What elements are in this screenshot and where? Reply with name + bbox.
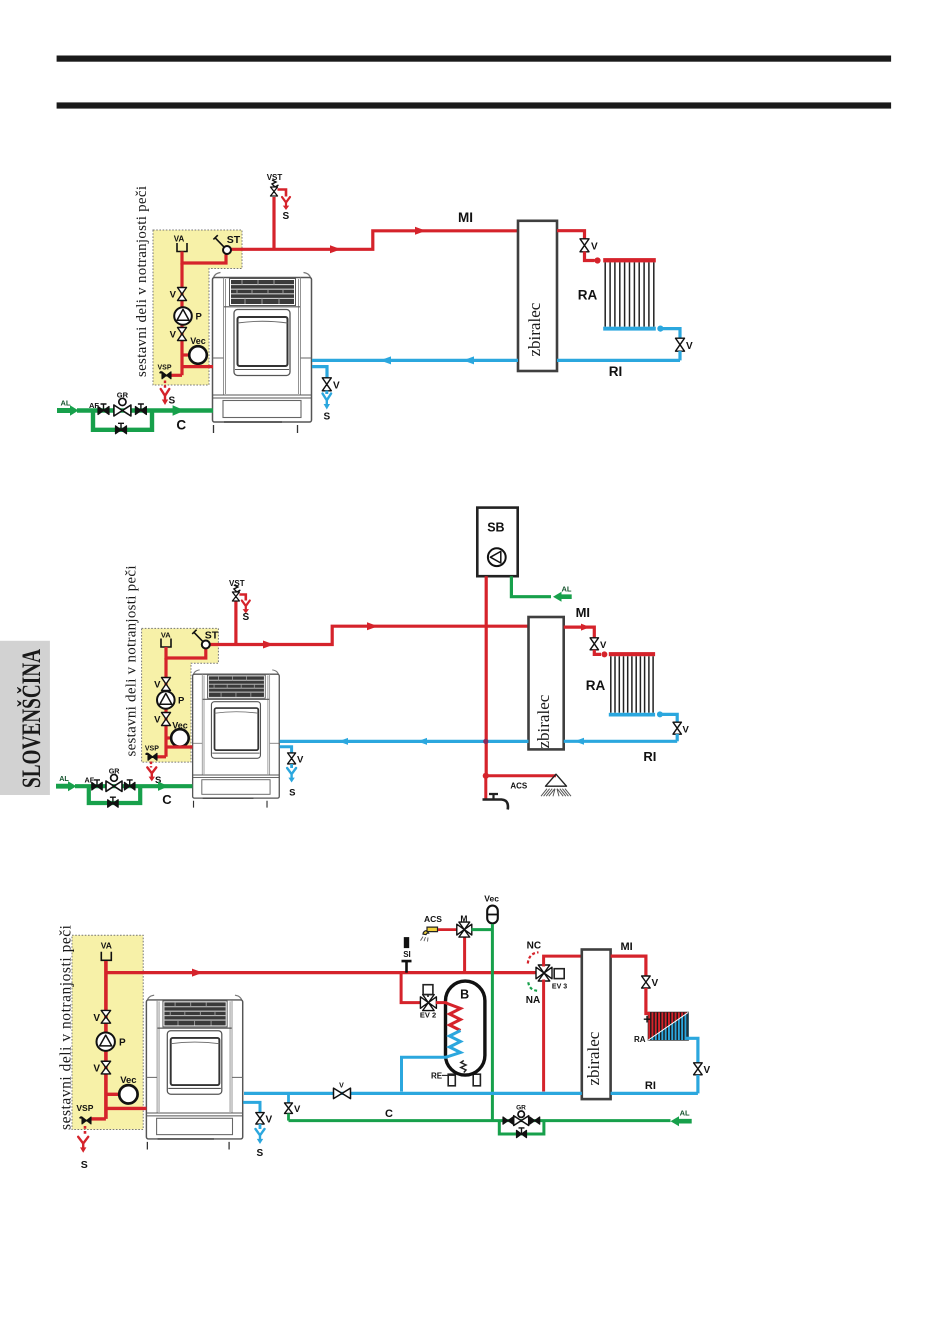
diagram2 wire: RI return collector to stove	[280, 740, 529, 743]
diagram3 wire: red supply line to EV3	[106, 971, 537, 974]
diagram1 wire: red to VSP	[169, 374, 182, 377]
diagram3 tank coil cold part	[446, 1031, 461, 1058]
diagram3 wire: green M valve to riser	[471, 928, 492, 931]
diagram1 drain valve V blue	[322, 378, 331, 391]
diagram1 flow arrow on C line	[173, 405, 185, 415]
diagram3 valve EV2	[420, 995, 436, 1011]
diagram3 valve V lower	[101, 1061, 110, 1074]
diagram2 safety drain valve VSP	[148, 753, 157, 760]
diagram2 wire: red drop to faucet	[484, 776, 487, 800]
diagram1 safety valve VST	[271, 187, 278, 196]
diagram2 valve V upper	[162, 678, 171, 691]
diagram2 wire: blue drain stub from stove	[280, 747, 292, 753]
svg-text:AF: AF	[85, 776, 95, 785]
diagram3 pressure reducer GR	[518, 1111, 524, 1117]
diagram2 wire: red to VSP	[155, 755, 166, 758]
diagram3 DHW tank B	[446, 981, 485, 1075]
diagram2 valve V lower	[162, 713, 171, 726]
diagram3 drain arrow to S	[78, 1137, 88, 1153]
diagram1 wire: blue from radiator to valve	[662, 329, 680, 339]
diagram2 shower symbol	[546, 774, 567, 786]
svg-text:ST: ST	[227, 234, 241, 246]
svg-text:RI: RI	[643, 749, 656, 764]
diagram2 wire: red riser to VST	[234, 601, 237, 645]
diagram1 junction dot cold	[657, 326, 663, 332]
diagram1 junction dot hot	[594, 257, 600, 263]
svg-text:ST: ST	[205, 630, 219, 642]
diagram2 air vent VA	[161, 639, 171, 648]
diagram3 radiator RA diagonal	[648, 1012, 688, 1040]
svg-text:GR: GR	[516, 1105, 526, 1112]
svg-text:S: S	[81, 1159, 88, 1171]
diagram1 wire: blue drain stub from stove	[312, 367, 327, 378]
svg-text:V: V	[170, 330, 177, 341]
svg-text:zbiralec: zbiralec	[534, 694, 553, 748]
diagram3 shutoff valve right of GR	[530, 1117, 540, 1124]
top rule bar 2	[57, 102, 892, 108]
diagram3 wire: green fill line C	[289, 1119, 671, 1122]
diagram2 bypass valve	[108, 800, 119, 808]
diagram1 shutoff valve after GR	[135, 407, 146, 415]
diagram3 blue drain arrow to S	[256, 1129, 265, 1144]
svg-text:S: S	[282, 211, 289, 222]
svg-text:MI: MI	[620, 941, 632, 953]
diagram3 wire: red EV3 up to collector MI	[544, 956, 582, 966]
svg-text:ACS: ACS	[510, 781, 528, 790]
diagram3 wire: red main riser from VA	[104, 961, 108, 1119]
svg-text:V: V	[704, 1065, 711, 1076]
diagram1 wire: RI return collector to stove	[312, 359, 518, 362]
svg-text:SLOVENŠČINA: SLOVENŠČINA	[17, 649, 46, 788]
diagram3 wire: blue from tank to return	[402, 1057, 448, 1091]
svg-text:V: V	[93, 1064, 100, 1075]
diagram2 drain arrow to S	[147, 767, 156, 781]
svg-text:ACS: ACS	[424, 914, 442, 924]
svg-text:V: V	[170, 290, 177, 301]
svg-text:RI: RI	[609, 364, 623, 379]
diagram1 thermostat ST	[223, 246, 231, 254]
svg-text:S: S	[289, 788, 295, 799]
diagram2 flow arrow on red line	[263, 641, 274, 649]
diagram2 VST discharge arrow to S	[242, 601, 250, 614]
diagram1 VST discharge elbow	[278, 190, 287, 197]
diagram2 radiator valve V hot side	[590, 638, 598, 650]
diagram3 wire: blue drain stub from stove	[243, 1102, 260, 1112]
svg-text:Vec: Vec	[190, 336, 206, 346]
svg-text:NA: NA	[526, 995, 540, 1006]
diagram2 flow arrows on RI	[339, 738, 349, 745]
svg-text:zbiralec: zbiralec	[584, 1031, 603, 1085]
svg-text:S: S	[323, 412, 330, 423]
diagram3 drain valve V blue	[256, 1113, 264, 1125]
diagram3 wire: green bypass loop	[499, 1121, 544, 1134]
diagram1 radiator RA	[603, 258, 656, 262]
diagram2 wire: green fill line C	[75, 784, 193, 788]
svg-text:P: P	[196, 312, 203, 323]
diagram1 wire: red internal riser	[180, 263, 183, 375]
diagram2 wire: green from SB to AL	[511, 576, 551, 597]
SLOVENSCINA sidebar tab	[0, 641, 50, 795]
svg-text:V: V	[591, 242, 598, 253]
svg-text:AL: AL	[59, 774, 69, 783]
diagram3 VSP dashed drain	[84, 1126, 87, 1136]
svg-text:Vec: Vec	[484, 893, 499, 903]
diagram2 blue drain arrow to S	[287, 768, 296, 783]
diagram2 junction dot cold	[657, 711, 663, 717]
svg-text:RA: RA	[586, 678, 606, 693]
diagram1 collector box zbiralec	[518, 221, 557, 371]
diagram3 wire: red drop to EV2	[401, 973, 421, 1003]
diagram1 blue drain arrow to S	[323, 394, 332, 410]
svg-text:GR: GR	[117, 390, 129, 399]
svg-text:P: P	[178, 696, 185, 707]
svg-text:C: C	[162, 792, 172, 807]
diagram1 wire: VA drop to ST tee	[182, 252, 226, 264]
diagram1 fill water line AL arrow	[57, 405, 79, 416]
diagram2 SB pump	[488, 548, 506, 566]
diagram1 expansion vessel Vec	[182, 353, 190, 356]
diagram2 flow arrow on C line	[158, 782, 169, 791]
svg-text:sestavni deli v notranjosti pe: sestavni deli v notranjosti peči	[124, 566, 140, 757]
diagram3 safety drain valve VSP	[82, 1117, 91, 1124]
svg-text:P: P	[119, 1038, 126, 1049]
diagram1 yellow box: sestavni deli v notranjosti peci	[153, 230, 242, 385]
diagram1 flow arrow on red line	[330, 245, 341, 253]
diagram3 fill arrow AL pointing left	[671, 1116, 692, 1126]
svg-text:GR: GR	[109, 766, 121, 775]
svg-text:S: S	[168, 396, 175, 407]
diagram2 pump P	[157, 691, 175, 709]
diagram1 drain arrow to S	[161, 389, 170, 405]
svg-text:V: V	[339, 1083, 344, 1090]
svg-text:RA: RA	[634, 1035, 646, 1044]
diagram3 shutoff valve left of GR	[503, 1117, 513, 1124]
diagram1 flow arrows on RI	[380, 356, 391, 364]
diagram3 radiator valve V cold side	[694, 1063, 703, 1075]
svg-text:V: V	[333, 380, 340, 391]
diagram1 pressure reducer GR	[119, 398, 126, 405]
diagram2 wire: RI return to collector	[564, 740, 678, 743]
diagram2 wire: green bypass loop	[89, 786, 140, 803]
diagram3 wire: red to VSP	[90, 1117, 106, 1120]
diagram1 safety drain valve VSP	[162, 372, 171, 379]
diagram1 radiator valve V hot side	[580, 239, 589, 252]
diagram2 fill water line AL arrow	[56, 781, 77, 791]
svg-text:AL: AL	[562, 584, 572, 593]
svg-text:sestavni deli v notranjosti pe: sestavni deli v notranjosti peči	[134, 186, 150, 377]
diagram1 VSP dashed drain	[164, 381, 166, 390]
diagram3 wire: blue radiator to valve	[686, 1038, 698, 1062]
svg-text:SI: SI	[403, 950, 411, 959]
diagram2 wire: red drop from SB	[485, 576, 488, 776]
svg-text:AL: AL	[680, 1109, 690, 1118]
diagram2 wire: blue from radiator to valve	[662, 714, 678, 722]
diagram2 VST discharge elbow	[239, 595, 245, 601]
diagram3 expansion vessel Vec	[106, 1093, 120, 1096]
diagram3 pellet stove	[146, 995, 242, 1149]
diagram2 shutoff valve after GR	[124, 782, 135, 790]
svg-text:V: V	[294, 1104, 301, 1115]
diagram2 junction dot red-blue crossing	[483, 739, 488, 744]
diagram1 VST discharge arrow to S	[282, 197, 290, 210]
diagram1 valve V upper	[178, 288, 187, 301]
diagram2 expansion vessel Vec	[166, 736, 172, 739]
svg-text:V: V	[686, 341, 693, 352]
svg-text:VA: VA	[174, 235, 185, 244]
diagram2 wire: VA drop to ST tee	[166, 647, 206, 658]
diagram2 wire: red from collector to radiator valve	[564, 627, 595, 638]
svg-text:V: V	[297, 754, 304, 765]
diagram1 wire: red feed into stove	[182, 365, 213, 368]
diagram1 wire: green bypass loop	[93, 411, 152, 430]
svg-text:B: B	[460, 987, 469, 1001]
diagram3 bypass valve	[517, 1130, 527, 1137]
svg-text:AF: AF	[89, 401, 99, 410]
svg-text:V: V	[154, 680, 161, 691]
svg-text:RA: RA	[578, 288, 598, 303]
svg-text:VST: VST	[267, 173, 283, 182]
diagram2 wire: red internal riser	[164, 658, 167, 757]
diagram1 flow arrow on MI line	[415, 227, 426, 235]
diagram1 wire: red flow from ST to riser step and MI line	[227, 231, 518, 250]
diagram2 collector box zbiralec	[529, 617, 564, 749]
svg-text:C: C	[176, 417, 186, 432]
diagram2 radiator valve V cold side	[673, 722, 681, 734]
svg-text:V: V	[600, 640, 607, 651]
diagram3 heater element RE	[461, 1061, 466, 1073]
svg-text:C: C	[385, 1108, 393, 1120]
svg-text:MI: MI	[458, 210, 473, 225]
svg-text:RI: RI	[645, 1080, 656, 1092]
svg-text:S: S	[242, 612, 249, 623]
diagram1 valve V lower	[178, 328, 187, 341]
diagram2 flow arrow on red line after step	[367, 622, 378, 630]
diagram3 diverter valve EV3	[536, 965, 552, 981]
svg-text:V: V	[266, 1114, 273, 1125]
diagram3 wire: blue RI main line	[244, 1092, 698, 1095]
diagram3 valve V upper	[101, 1010, 110, 1023]
diagram1 radiator valve V cold side	[676, 338, 685, 351]
svg-text:V: V	[652, 978, 659, 989]
diagram2 drain valve V blue	[288, 753, 296, 764]
diagram2 fill arrow AL pointing left	[553, 592, 572, 602]
diagram3 wire: red EV3 down to RI	[542, 980, 545, 1092]
diagram2 DHW junction dot	[483, 773, 489, 779]
diagram2 flow arrow MI stub	[581, 624, 590, 631]
svg-text:V: V	[683, 724, 690, 735]
svg-text:RE: RE	[431, 1072, 443, 1081]
diagram2 yellow box: sestavni deli v notranjosti peci	[142, 628, 219, 762]
diagram3 wire: red feed into stove	[106, 1107, 147, 1110]
top rule bar 1	[57, 56, 892, 62]
svg-text:MI: MI	[576, 605, 590, 620]
svg-text:sestavni deli v notranjosti pe: sestavni deli v notranjosti peči	[58, 924, 75, 1130]
diagram1 pump P	[174, 307, 192, 325]
diagram3 drain valve between RI and C	[287, 1093, 290, 1103]
svg-text:NC: NC	[527, 941, 541, 952]
diagram1 wire: green fill line C	[77, 408, 213, 412]
svg-text:AL: AL	[61, 399, 71, 408]
diagram3 radiator valve V hot side	[642, 976, 651, 988]
diagram2 wire: red feed into stove	[166, 745, 193, 748]
svg-text:zbiralec: zbiralec	[525, 302, 544, 356]
diagram2 shutoff valve AF	[92, 782, 103, 790]
diagram3 probe SI	[404, 937, 409, 948]
svg-text:VA: VA	[161, 630, 171, 639]
diagram3 air vent VA	[101, 952, 111, 961]
svg-text:EV 3: EV 3	[552, 983, 567, 990]
diagram2 faucet symbol	[483, 800, 508, 810]
svg-text:VSP: VSP	[145, 746, 159, 753]
diagram3 pump P	[97, 1033, 115, 1051]
diagram3 mixing valve M drop	[463, 935, 466, 973]
svg-text:+: +	[643, 1012, 651, 1027]
diagram3 mixing valve M	[457, 922, 472, 937]
svg-text:VSP: VSP	[157, 365, 171, 372]
diagram1 wire: red riser to VST	[272, 197, 275, 249]
svg-text:Vec: Vec	[172, 720, 188, 730]
diagram2 safety valve VST	[232, 592, 239, 601]
diagram1 shutoff valve AF	[98, 407, 109, 415]
svg-text:V: V	[154, 715, 161, 726]
svg-text:M: M	[460, 914, 467, 924]
diagram3 wire: green riser from Vec to C line	[491, 924, 494, 1121]
svg-text:VSP: VSP	[76, 1103, 93, 1113]
diagram2 pellet stove	[193, 670, 280, 808]
diagram2 pressure reducer GR	[111, 775, 118, 782]
diagram2 boiler SB box	[477, 508, 517, 577]
diagram3 expansion vessel Vec capsule	[487, 906, 498, 924]
diagram1 bypass valve	[116, 426, 127, 434]
diagram2 junction dot hot	[601, 651, 607, 657]
diagram2 radiator RA	[609, 652, 655, 656]
diagram3 wire: red MI collector to radiator valve	[611, 956, 646, 976]
diagram3 wire: red faucet to M valve	[438, 928, 457, 931]
diagram3 inline valve V on RI	[334, 1088, 351, 1099]
diagram1 pellet stove	[213, 273, 312, 434]
diagram2 wire: red DHW branch to shower	[486, 774, 556, 777]
diagram2 VSP dashed drain	[150, 762, 152, 768]
diagram2 wire: red flow from ST with step to collector	[206, 626, 529, 644]
diagram3 yellow box: sestavni deli v notranjosti peci	[72, 935, 143, 1129]
svg-text:SB: SB	[487, 521, 504, 535]
svg-text:VA: VA	[101, 941, 112, 951]
diagram1 wire: RI return to collector	[557, 359, 680, 362]
diagram3 ACS faucet yellow	[423, 931, 429, 935]
diagram3 collector box zbiralec	[582, 950, 611, 1100]
svg-text:EV 2: EV 2	[420, 1010, 436, 1019]
diagram2 thermostat ST	[202, 641, 210, 649]
diagram3 tank legs	[448, 1074, 455, 1086]
diagram1 air vent VA	[177, 243, 187, 252]
diagram1 wire: red from collector to radiator valve	[557, 231, 585, 239]
svg-text:V: V	[93, 1013, 100, 1024]
diagram3 flow arrow on red supply	[192, 969, 203, 977]
svg-text:VST: VST	[229, 579, 245, 588]
diagram3 wire: red EV2 to tank coil	[436, 1001, 447, 1004]
diagram3 tank coil hot part	[446, 1003, 461, 1031]
svg-text:S: S	[256, 1148, 263, 1159]
svg-text:Vec: Vec	[120, 1075, 136, 1086]
